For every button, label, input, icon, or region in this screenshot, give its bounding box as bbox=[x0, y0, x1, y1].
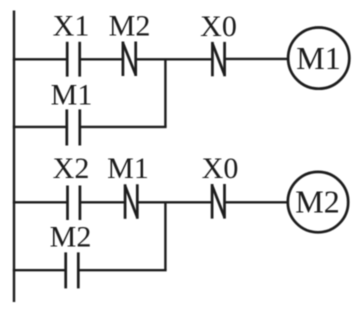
coil M2 bbox=[288, 172, 348, 232]
wire branch1 rail to M1 bbox=[13, 126, 67, 128]
svg-text:M1: M1 bbox=[107, 152, 149, 185]
left power rail bbox=[13, 11, 15, 303]
contact X0 rung1 (NC) bbox=[212, 42, 224, 76]
wire branch2 rail to M2 bbox=[13, 269, 66, 271]
svg-text:M2: M2 bbox=[295, 184, 339, 220]
wire X2 to M1 bbox=[80, 201, 125, 203]
contact M2 (NO, seal-in branch) bbox=[66, 252, 79, 288]
coil M1 bbox=[288, 27, 349, 88]
wire rung1 rail to X1 bbox=[13, 58, 67, 60]
svg-text:X0: X0 bbox=[200, 10, 237, 43]
junction node rung1 branch bbox=[164, 59, 166, 127]
wire X0 to coil M2 bbox=[225, 201, 289, 203]
contact M2 (NC) bbox=[123, 42, 136, 77]
svg-text:M1: M1 bbox=[51, 79, 93, 112]
junction node rung2 branch bbox=[164, 202, 166, 270]
contact X1 (NO) bbox=[67, 42, 80, 77]
wire X1 to M2 bbox=[80, 58, 123, 60]
svg-text:X1: X1 bbox=[53, 10, 90, 43]
contact M1 (NO, seal-in branch) bbox=[67, 109, 80, 145]
wire M1 to X0 rung2 bbox=[137, 201, 212, 203]
contact X2 (NO) bbox=[68, 186, 80, 221]
contact X0 rung2 (NC) bbox=[212, 184, 224, 219]
wire X0 to coil M1 bbox=[225, 58, 289, 60]
svg-text:M2: M2 bbox=[109, 10, 151, 43]
svg-text:X0: X0 bbox=[202, 152, 239, 185]
wire rung2 rail to X2 bbox=[13, 201, 68, 203]
svg-text:M2: M2 bbox=[50, 221, 92, 254]
wire M1 branch to junction bbox=[80, 126, 167, 128]
svg-text:X2: X2 bbox=[53, 152, 90, 185]
svg-text:M1: M1 bbox=[296, 40, 340, 76]
wire M2 to X0 bbox=[136, 58, 213, 60]
wire M2 branch to junction bbox=[78, 269, 166, 271]
contact M1 rung2 (NC) bbox=[125, 184, 137, 219]
